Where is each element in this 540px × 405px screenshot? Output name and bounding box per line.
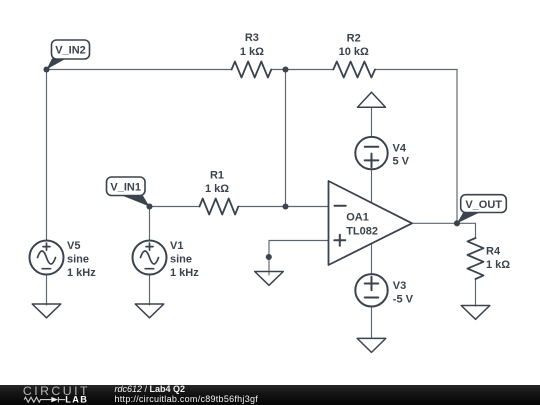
label R3 name and value <box>240 32 264 58</box>
svg-text:sine: sine <box>67 254 89 266</box>
op-amp OA1 TL082 <box>329 181 413 265</box>
junction dot inverting input node <box>282 203 288 209</box>
svg-text:5 V: 5 V <box>393 156 410 168</box>
junction dot R3/R2 node <box>282 66 288 72</box>
svg-text:V_IN2: V_IN2 <box>55 45 86 57</box>
junction dot ground branch <box>266 254 272 260</box>
label OA1 name and part number <box>346 211 378 237</box>
svg-text:sine: sine <box>170 254 192 266</box>
junction dot output node <box>454 220 460 226</box>
label V4 name and value <box>393 142 410 167</box>
wire R1 to junction and op-amp inverting input <box>238 206 328 208</box>
svg-text:OA1: OA1 <box>346 211 369 223</box>
label V5 name and value <box>67 240 96 279</box>
wire op-amp bottom edge to V3 top <box>371 243 373 274</box>
wire junction R3 down to inverting input line <box>285 70 287 207</box>
svg-text:1 kHz: 1 kHz <box>67 267 96 279</box>
svg-text:V_IN1: V_IN1 <box>110 181 141 193</box>
svg-text:V_OUT: V_OUT <box>465 199 502 211</box>
ground below V1 <box>135 304 164 318</box>
resistor R3 1k <box>232 62 272 78</box>
power flag above V4 <box>358 92 386 107</box>
svg-text:R2: R2 <box>347 33 361 45</box>
footer text <box>115 385 259 404</box>
wire left rail vertical V_IN2 to V5 <box>46 70 48 241</box>
ground below R4 <box>461 306 490 320</box>
label R1 name and value <box>205 169 229 195</box>
wire VCC flag down to V4 <box>371 107 373 137</box>
wire V5 bottom to ground <box>46 275 48 306</box>
svg-text:TL082: TL082 <box>346 225 378 237</box>
wire op-amp output to R4 corner <box>412 223 476 238</box>
svg-text:LAB: LAB <box>65 395 88 405</box>
voltage source V3 -5V <box>355 274 387 306</box>
resistor R1 1k <box>200 199 239 215</box>
wire V4 bottom to op-amp top edge <box>371 169 373 202</box>
svg-text:V5: V5 <box>67 240 80 252</box>
resistor R2 10k <box>333 62 375 78</box>
label V1 name and value <box>170 240 199 279</box>
svg-text:R3: R3 <box>245 32 259 44</box>
label R2 name and value <box>339 33 369 59</box>
junction dot V_IN2 corner <box>43 66 49 72</box>
resistor R4 1k vertical <box>468 238 484 279</box>
wire right rail vertical <box>456 70 458 224</box>
svg-text:-5 V: -5 V <box>393 293 414 305</box>
voltage source V5 sine <box>30 241 64 275</box>
svg-text:1 kΩ: 1 kΩ <box>240 46 264 58</box>
voltage source V4 5V <box>355 137 387 169</box>
negative supply flag below V3 <box>357 338 386 352</box>
wire non-inverting input to ground branch <box>269 241 329 276</box>
wire R4 bottom to ground <box>475 279 477 306</box>
wire V1 bottom to ground <box>149 275 151 306</box>
footer bar <box>0 385 540 405</box>
svg-text:V1: V1 <box>170 240 183 252</box>
svg-text:1 kHz: 1 kHz <box>170 267 199 279</box>
junction dot V_IN1 node <box>146 203 152 209</box>
wire from R2 to right rail corner <box>375 69 457 71</box>
label V3 name and value <box>393 280 414 305</box>
svg-text:1 kΩ: 1 kΩ <box>205 183 229 195</box>
voltage source V1 sine <box>133 241 167 275</box>
wire top horizontal from V_IN2 node to R3 <box>47 69 232 71</box>
svg-text:R4: R4 <box>486 246 501 258</box>
ground at non-inverting input <box>255 272 284 286</box>
svg-text:V4: V4 <box>393 142 407 154</box>
wire V3 bottom to negative supply flag <box>371 307 373 339</box>
ground below V5 <box>32 304 61 318</box>
node label V_IN1 <box>107 177 150 207</box>
svg-text:V3: V3 <box>393 280 406 292</box>
wire V_IN1 node down to V1 <box>149 207 151 241</box>
svg-text:1 kΩ: 1 kΩ <box>486 259 510 271</box>
wire between R3 and R2 <box>271 69 333 71</box>
svg-text:10 kΩ: 10 kΩ <box>339 46 369 58</box>
node label V_IN2 <box>47 40 90 70</box>
wire V_IN1 node to R1 <box>150 206 200 208</box>
svg-text:R1: R1 <box>210 169 224 181</box>
CircuitLab logo <box>0 385 110 405</box>
node label V_OUT <box>457 195 506 224</box>
label R4 name and value <box>486 246 510 272</box>
